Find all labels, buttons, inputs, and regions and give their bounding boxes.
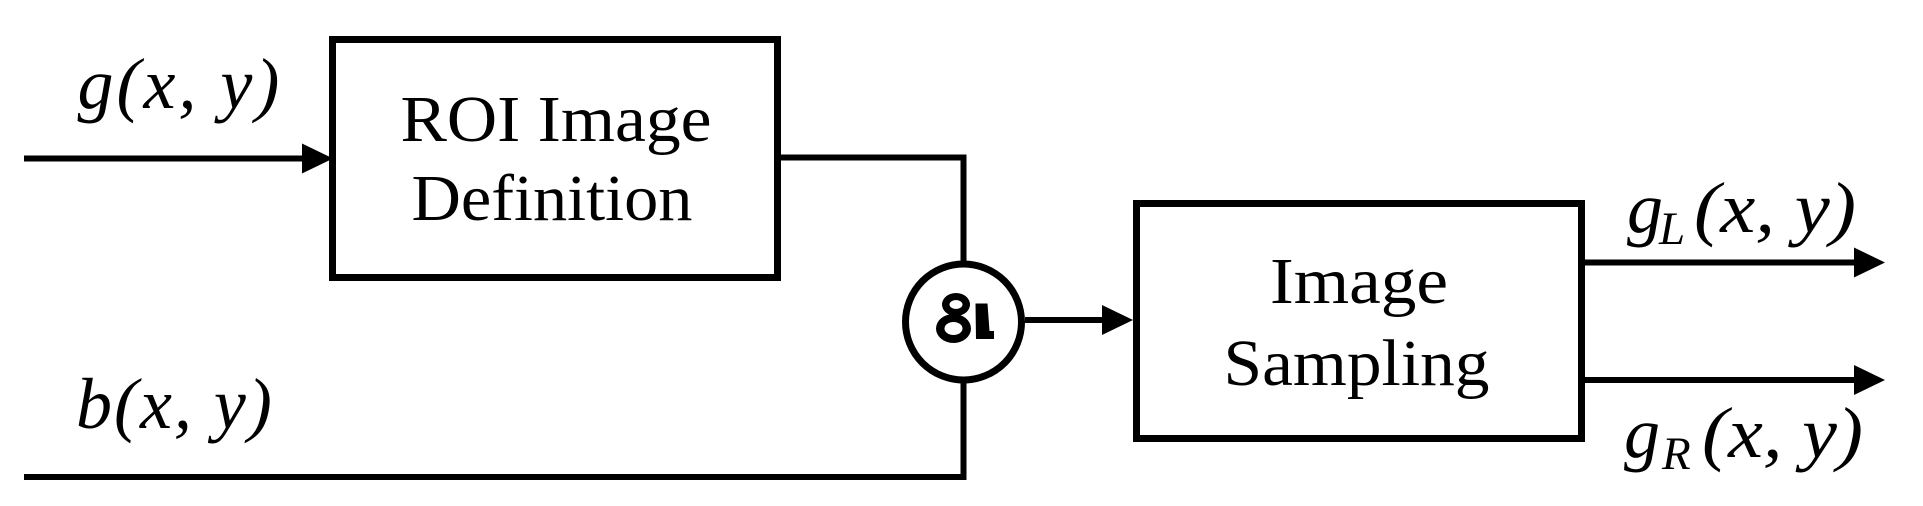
svg-text:g: g	[1624, 393, 1660, 473]
svg-text:L: L	[1658, 203, 1685, 255]
node gL(x,y) output label	[1627, 168, 1856, 255]
block ROI Image Definition	[333, 40, 778, 278]
wire ROI box output to AND circle (right then down)	[778, 158, 964, 264]
wire input arrow to ROI box	[24, 156, 306, 162]
svg-text:(x, y): (x, y)	[1694, 168, 1856, 248]
svg-text:g(x, y): g(x, y)	[78, 44, 283, 124]
svg-text:R: R	[1661, 428, 1691, 480]
AND symbol & (top loop)	[942, 293, 970, 316]
wire AND circle arrow to Image Sampling box	[1025, 317, 1106, 323]
svg-text:Image: Image	[1270, 245, 1448, 318]
AND junction circle	[906, 264, 1022, 380]
svg-text:ROI Image: ROI Image	[401, 83, 712, 156]
block Image Sampling	[1137, 204, 1582, 439]
wire bottom output arrow gR	[1581, 377, 1857, 383]
wire top output arrow gL	[1581, 260, 1857, 266]
svg-text:(x, y): (x, y)	[1702, 393, 1863, 473]
svg-text:Definition: Definition	[412, 162, 693, 235]
AND symbol & (right leg with foot)	[976, 304, 995, 340]
node gR(x,y) output label	[1624, 393, 1863, 480]
svg-text:g: g	[1627, 168, 1663, 248]
svg-text:b(x, y): b(x, y)	[76, 364, 274, 444]
AND symbol & (bottom loop)	[936, 314, 971, 343]
wire b(x,y) bottom line to AND circle (right then up)	[24, 382, 964, 477]
svg-text:Sampling: Sampling	[1224, 327, 1490, 400]
